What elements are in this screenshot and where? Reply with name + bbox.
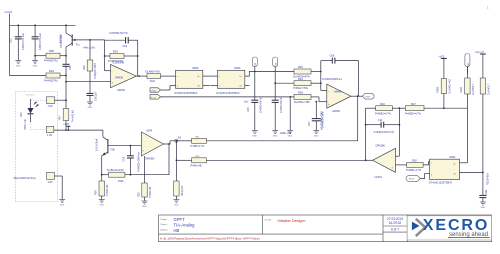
op-amp U3 feedback cap C08 — [321, 54, 359, 96]
svg-text:+V25: +V25 — [438, 54, 445, 58]
capacitor C06 — [87, 91, 98, 102]
wire op-amp U1 inputs — [105, 70, 111, 72]
capacitor C11 feedback — [366, 118, 400, 134]
power +Vs=+5 — [475, 50, 486, 78]
svg-text:T1x: T1x — [76, 44, 81, 47]
op-amp U2 — [138, 129, 164, 172]
svg-text:P=850,4,?%: P=850,4,?% — [191, 145, 205, 148]
svg-text:DI Sensor: DI Sensor — [26, 94, 35, 96]
wire R11 to U3 output — [206, 96, 357, 141]
wire RstA long — [161, 96, 295, 98]
wire IC U9 right pins — [460, 162, 468, 164]
resistor R20 — [293, 65, 321, 78]
svg-text:GND: GND — [252, 136, 257, 138]
wire t2 base rail — [54, 129, 103, 131]
resistor R02 — [146, 70, 176, 83]
svg-text:R23: R23 — [138, 192, 141, 197]
svg-text:GND: GND — [481, 207, 486, 209]
op-amp U4 (left pointing) — [373, 144, 396, 178]
svg-text:GND: GND — [33, 66, 38, 68]
op-amp U1 feedback cap C02 — [105, 32, 138, 48]
svg-text:C05: C05 — [10, 38, 13, 43]
ground — [15, 61, 21, 64]
title block texts — [160, 217, 403, 240]
power +V25 — [438, 54, 447, 78]
svg-text:Design:: Design: — [161, 219, 168, 221]
svg-text:8d: 8d — [240, 86, 242, 88]
net flag RX_R — [406, 174, 430, 182]
svg-text:U2D5C: U2D5C — [332, 110, 340, 113]
resistor R18 — [396, 159, 430, 173]
port P1 — [252, 57, 257, 100]
svg-text:a: a — [431, 163, 432, 165]
svg-text:R17: R17 — [411, 102, 416, 106]
svg-text:SEL: SEL — [468, 62, 470, 65]
svg-text:RX_R: RX_R — [409, 179, 415, 181]
svg-text:5,6BV,X7R,1uF: 5,6BV,X7R,1uF — [22, 32, 25, 50]
svg-text:GND: GND — [174, 205, 179, 207]
svg-text:R18: R18 — [412, 159, 417, 163]
svg-text:Project:: Project: — [161, 223, 168, 226]
svg-text:Rst_A: Rst_A — [151, 96, 157, 99]
logo box — [407, 216, 491, 240]
svg-text:R16: R16 — [380, 102, 385, 106]
logo chevron gray — [416, 219, 425, 236]
svg-text:GND: GND — [99, 205, 104, 207]
box 1V8 upper — [47, 97, 67, 108]
node rail junctions — [17, 24, 19, 26]
svg-text:R03: R03 — [113, 50, 118, 54]
svg-text:D74xHC123STDB-R: D74xHC123STDB-R — [217, 92, 240, 95]
svg-text:C13: C13 — [123, 156, 126, 161]
svg-text:C08: C08 — [330, 54, 335, 57]
resistor R23 + ground — [138, 156, 152, 201]
sensor dashed box — [16, 92, 58, 202]
svg-text:P2W: P2W — [118, 180, 124, 183]
svg-text:GND: GND — [142, 206, 147, 208]
svg-text:5,6BV,X7R,1uF: 5,6BV,X7R,1uF — [39, 32, 42, 50]
svg-text:HB: HB — [174, 228, 180, 233]
svg-text:U2D7x: U2D7x — [375, 176, 383, 179]
svg-text:P=84x,4B: P=84x,4B — [191, 164, 202, 167]
capacitor C03 inline — [63, 55, 73, 130]
svg-text:U2D6: U2D6 — [234, 67, 241, 70]
svg-text:U2D5A: U2D5A — [117, 89, 125, 92]
svg-text:1 8V: 1 8V — [47, 134, 52, 137]
port P3 — [465, 54, 470, 74]
svg-text:T2B: T2B — [110, 149, 115, 152]
svg-text:C=84D=5V=1u: C=84D=5V=1u — [280, 96, 283, 113]
svg-text:R05: R05 — [49, 49, 54, 53]
capacitor C1 — [10, 25, 26, 60]
svg-text:C07: C07 — [308, 121, 311, 126]
resistor R21 vertical — [480, 78, 490, 195]
svg-text:H:\B_18\GPpapps\QareAmtstream\: H:\B_18\GPpapps\QareAmtstream\GPFT4(app)… — [160, 237, 260, 241]
svg-text:C=84D=5V=1u: C=84D=5V=1u — [260, 96, 263, 113]
svg-text:C15: C15 — [247, 107, 250, 112]
wire U4 output junction — [365, 159, 367, 161]
wire feedback verticals — [104, 40, 106, 71]
svg-text:P=84K,4B: P=84K,4B — [106, 184, 109, 196]
net flag RstA — [150, 95, 161, 100]
svg-text:R20: R20 — [298, 65, 303, 69]
svg-text:C06,1uF: C06,1uF — [95, 91, 98, 101]
svg-text:<Master Design>: <Master Design> — [277, 219, 307, 223]
svg-text:ACHTUNG=DBV: ACHTUNG=DBV — [320, 111, 323, 130]
IC U9 — [429, 156, 460, 184]
svg-text:C44x: C44x — [485, 189, 488, 196]
svg-text:Authors:: Authors: — [161, 229, 169, 232]
svg-text:1 8V: 1 8V — [48, 105, 53, 108]
svg-text:P=84K,4B: P=84K,4B — [149, 186, 152, 198]
capacitor C2 — [32, 25, 42, 60]
ground — [32, 61, 38, 64]
svg-text:P1xB: P1xB — [460, 87, 463, 93]
svg-text:U2D5: U2D5 — [192, 67, 199, 70]
resistor R11 — [176, 137, 206, 148]
svg-text:8a: 8a — [454, 164, 456, 166]
svg-text:C02: C02 — [123, 45, 128, 48]
wire inverting node vertical — [320, 61, 322, 91]
op-amp U3 AD8612 — [322, 78, 351, 113]
wire U4 feedback vertical — [365, 108, 367, 160]
wire U2 feedback loop — [125, 144, 169, 175]
svg-text:IN1: IN1 — [255, 63, 257, 66]
svg-text:1 8V: 1 8V — [48, 181, 53, 184]
resistor R19 — [275, 77, 321, 90]
svg-text:8d: 8d — [198, 86, 200, 88]
svg-text:GND: GND — [273, 136, 278, 138]
svg-text:8d: 8d — [454, 173, 456, 175]
svg-text:+Ref_+2%: +Ref_+2% — [83, 46, 96, 49]
port P2 — [273, 57, 278, 100]
svg-text:TL=85,61=4,5K: TL=85,61=4,5K — [107, 169, 125, 172]
svg-text:GND: GND — [60, 205, 65, 207]
svg-text:16:29:32: 16:29:32 — [389, 221, 402, 225]
net flag CTRL1 — [150, 86, 176, 93]
photodiode D05 — [20, 99, 47, 130]
net flag XOUT — [363, 93, 375, 99]
svg-text:1K5 100uA: 1K5 100uA — [96, 138, 99, 151]
op-amp U1 — [111, 61, 137, 92]
resistor R05 — [34, 49, 66, 63]
svg-text:R19: R19 — [298, 77, 303, 81]
svg-text:D74xHC123STDB-R: D74xHC123STDB-R — [175, 92, 198, 95]
ground — [59, 200, 65, 203]
svg-text:+Vs=5: +Vs=5 — [4, 10, 13, 14]
ground — [87, 102, 93, 105]
resistor R17 — [405, 102, 467, 115]
svg-text:R09: R09 — [95, 190, 98, 195]
resistor R09 vertical + ground — [95, 174, 109, 200]
svg-text:DLAHOL=4,5: DLAHOL=4,5 — [449, 78, 452, 94]
wire base T1 to feedback — [78, 39, 105, 41]
svg-text:b: b — [431, 175, 432, 177]
svg-text:A5480: A5480 — [334, 91, 342, 94]
svg-text:OPA08: OPA08 — [115, 77, 123, 80]
svg-text:U=HPDF=5V,?%: U=HPDF=5V,?% — [109, 32, 128, 35]
capacitor C07 — [308, 101, 325, 131]
svg-text:C=84xD=DDH+Lx: C=84xD=DDH+Lx — [322, 78, 343, 81]
wire R12 long to U4 — [206, 159, 365, 161]
capacitor C16 — [272, 96, 283, 131]
svg-text:IN2: IN2 — [276, 63, 278, 66]
capacitor C15 — [247, 96, 263, 131]
svg-text:GND: GND — [16, 66, 21, 68]
wire op-amp U3 output — [351, 95, 363, 97]
svg-text:R07: R07 — [59, 115, 62, 120]
capacitor C44 — [479, 189, 487, 202]
resistor R07 vertical on node column — [59, 99, 75, 122]
wire op-amp U1 output — [136, 75, 147, 77]
op-amp U1 feedback resistor R03 — [105, 50, 138, 64]
resistor R16 feedback — [366, 102, 406, 115]
svg-text:8a: 8a — [240, 76, 242, 78]
svg-text:TL8x: TL8x — [150, 80, 156, 83]
resistor R04 row — [10, 25, 67, 82]
svg-text:+Vs=+5: +Vs=+5 — [475, 50, 485, 54]
svg-text:1: 1 — [487, 6, 489, 10]
resistor R14 vertical — [436, 78, 451, 109]
capacitor C13 — [123, 145, 134, 175]
svg-text:P=HH2(7%): P=HH2(7%) — [44, 80, 58, 83]
svg-text:3xx: 3xx — [244, 101, 249, 104]
box 1V8 middle — [31, 126, 54, 137]
svg-text:N2: N2 — [178, 136, 182, 139]
svg-text:GND: GND — [288, 136, 293, 138]
resistor R24 + ground — [174, 181, 184, 200]
logo triangle blue — [412, 222, 420, 231]
svg-text:TIA-Analog: TIA-Analog — [174, 223, 196, 228]
svg-text:R2D5=50x: R2D5=50x — [486, 172, 489, 185]
svg-text:OPA080: OPA080 — [145, 157, 155, 160]
svg-text:P=84(D)=DBV=xx: P=84(D)=DBV=xx — [138, 151, 141, 172]
svg-text:Version:: Version: — [265, 220, 273, 222]
svg-text:DLAHOL?: DLAHOL? — [488, 83, 491, 95]
svg-text:R04: R04 — [49, 69, 54, 73]
wire U4 inv input vertical — [398, 108, 400, 156]
svg-text:8a: 8a — [198, 76, 200, 78]
svg-text:60pt,100Hz/d(=3ns): 60pt,100Hz/d(=3ns) — [14, 177, 36, 180]
svg-text:HPDL=4x: HPDL=4x — [24, 118, 27, 130]
svg-text:DLAHOL?: DLAHOL? — [472, 83, 475, 95]
svg-text:P=8082=4,?%: P=8082=4,?% — [375, 112, 392, 115]
svg-text:R24,5,2K: R24,5,2K — [181, 185, 184, 196]
ground branch mid — [289, 96, 291, 131]
svg-text:C03: C03 — [69, 65, 72, 70]
svg-text:C11: C11 — [378, 118, 383, 122]
wire U2 input — [124, 145, 141, 147]
svg-text:D05: D05 — [20, 112, 23, 117]
svg-text:DLAHO=TIN: DLAHO=TIN — [146, 70, 160, 73]
svg-text:GND: GND — [88, 107, 93, 109]
resistor R12 — [176, 141, 207, 181]
resistor R10 TL085 row — [102, 169, 125, 183]
svg-text:U294: U294 — [146, 129, 153, 132]
svg-text:GND: GND — [314, 136, 319, 138]
svg-text:C=84(0)=00V=x?p: C=84(0)=00V=x?p — [374, 131, 395, 134]
svg-text:b: b — [219, 86, 220, 88]
IC U2D5 — [175, 67, 218, 95]
transistor T2 — [96, 130, 125, 181]
svg-text:CTRL1: CTRL1 — [151, 91, 157, 93]
resistor R06 vertical — [83, 40, 93, 94]
box 1V8 lower — [14, 173, 63, 200]
svg-text:R28: R28 — [298, 91, 303, 95]
wire U2 output — [164, 141, 177, 144]
svg-text:P=84(D)=DBV: P=84(D)=DBV — [94, 63, 97, 79]
wire power rail — [10, 24, 76, 26]
svg-text:a: a — [219, 76, 220, 78]
svg-text:U2D4: U2D4 — [449, 156, 456, 159]
svg-text:P=8081-4,?%: P=8081-4,?% — [406, 169, 422, 172]
title block — [159, 215, 492, 242]
svg-text:P=HH2,4B: P=HH2,4B — [72, 110, 75, 122]
svg-text:+1V8: +1V8 — [63, 123, 69, 126]
svg-text:P=8082=4,?%: P=8082=4,?% — [405, 112, 422, 115]
power +1V8 stub — [63, 123, 70, 131]
svg-text:TOPEL?=53x: TOPEL?=53x — [293, 87, 309, 90]
wire IC2 out to R20 — [245, 72, 294, 77]
svg-text:6 of 7: 6 of 7 — [391, 227, 399, 231]
svg-text:P18B: P18B — [436, 87, 439, 93]
svg-text:b: b — [177, 86, 178, 88]
IC U2D6 — [211, 67, 250, 95]
svg-text:ANE=-2%: ANE=-2% — [280, 132, 292, 135]
svg-text:D74xHC123STDB-R: D74xHC123STDB-R — [429, 182, 452, 185]
svg-text:a: a — [177, 76, 178, 78]
svg-text:TL082=HB: TL082=HB — [112, 61, 124, 64]
svg-text:GPFT: GPFT — [174, 217, 186, 222]
resistor R15 vertical — [460, 67, 475, 163]
resistor R28 — [294, 91, 327, 104]
svg-text:R06: R06 — [83, 65, 86, 70]
svg-text:DLAHOL=186: DLAHOL=186 — [294, 101, 310, 104]
svg-text:T-05/3A: T-05/3A — [60, 34, 63, 43]
svg-text:P=HH2(7%): P=HH2(7%) — [44, 60, 58, 63]
svg-text:OPA380: OPA380 — [376, 144, 386, 147]
transistor T1 — [60, 25, 81, 55]
